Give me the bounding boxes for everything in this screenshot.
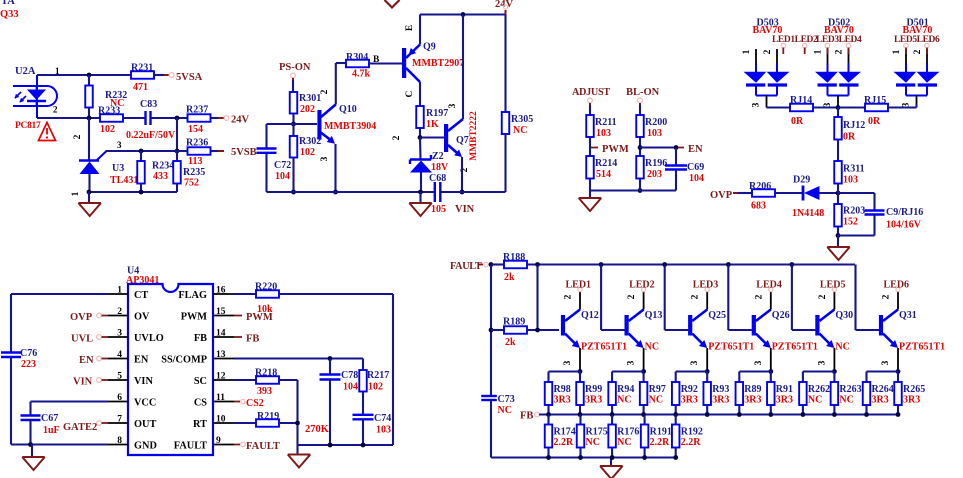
svg-text:NC: NC	[808, 395, 822, 406]
svg-text:NC: NC	[835, 342, 849, 353]
svg-text:D29: D29	[793, 175, 810, 186]
svg-text:R211: R211	[595, 117, 617, 128]
wire base node to C72	[267, 123, 294, 125]
node junction Q10 base node	[291, 122, 296, 127]
resistor R264	[863, 382, 871, 405]
svg-text:103: 103	[647, 128, 662, 139]
resistor R232	[88, 75, 90, 86]
node junction R264 at FB rail	[864, 412, 869, 417]
svg-text:UVL: UVL	[71, 334, 93, 345]
resistor R99	[576, 382, 584, 405]
svg-text:1uF: 1uF	[43, 425, 60, 436]
resistor R301	[290, 92, 298, 114]
wire GND rail bottom left	[11, 443, 108, 445]
node junction R176 bottom	[610, 455, 615, 460]
svg-text:2: 2	[627, 294, 637, 299]
svg-text:113: 113	[188, 156, 202, 167]
svg-text:C9/RJ16: C9/RJ16	[886, 207, 923, 218]
svg-text:2: 2	[392, 135, 402, 140]
wire FAULT column to R189	[491, 329, 504, 331]
svg-text:2k: 2k	[505, 337, 516, 348]
wire R237 to 24V terminal	[211, 117, 219, 119]
svg-text:UVLO: UVLO	[134, 333, 164, 344]
node junction R174 bottom	[546, 455, 551, 460]
net LED3 collector stub	[706, 292, 708, 310]
wire R305 column	[504, 15, 506, 113]
wire FAULT column	[490, 265, 492, 397]
svg-text:R99: R99	[585, 384, 602, 395]
svg-text:R200: R200	[645, 117, 667, 128]
wire base drop for Q26	[727, 265, 729, 331]
wire 24V column down	[176, 118, 178, 151]
node junction R263 at FB rail	[832, 412, 837, 417]
ground OVP column	[837, 236, 839, 248]
svg-text:152: 152	[843, 217, 858, 228]
svg-text:5: 5	[117, 372, 122, 382]
svg-text:U2A: U2A	[15, 66, 36, 77]
wire base drop for Q25	[664, 265, 666, 331]
svg-text:1: 1	[814, 49, 824, 54]
svg-text:FLAG: FLAG	[178, 290, 207, 301]
wire SS/COMP pin13	[234, 357, 363, 359]
svg-text:R191: R191	[650, 427, 672, 438]
net UVL at pin3	[97, 335, 102, 340]
resistor R211	[586, 115, 594, 137]
svg-text:LED5: LED5	[820, 280, 846, 291]
resistor R97	[640, 382, 648, 405]
svg-text:C73: C73	[498, 394, 515, 405]
svg-text:RJ12: RJ12	[843, 120, 865, 131]
svg-text:104: 104	[343, 382, 358, 393]
node junction Q10 emitter at rail	[333, 190, 338, 195]
node junction R234 bottom	[139, 190, 144, 195]
wire R197 to Q7 base node	[419, 128, 421, 138]
pin 3 stem of D502	[837, 96, 839, 108]
svg-text:202: 202	[300, 104, 315, 115]
svg-text:3: 3	[563, 360, 573, 365]
svg-text:OVP: OVP	[710, 190, 733, 201]
svg-text:R176: R176	[617, 427, 639, 438]
svg-text:3: 3	[752, 102, 762, 107]
svg-text:C: C	[405, 90, 415, 97]
net VIN at pin5	[97, 378, 102, 383]
svg-text:PZT651T1: PZT651T1	[899, 342, 945, 353]
node junction C67 at GND rail	[28, 442, 33, 447]
wire RJ15 to D501 pin3	[888, 106, 917, 108]
capacitor C76	[10, 294, 12, 353]
svg-text:Q12: Q12	[581, 310, 599, 321]
pin 3 stem of D501	[916, 96, 918, 108]
svg-text:R98: R98	[554, 384, 571, 395]
resistor R192	[675, 415, 677, 425]
wire emitter of Q31	[897, 348, 899, 372]
node junction R262 at FB rail	[801, 412, 806, 417]
node junction R219 at ground column	[295, 421, 300, 426]
pin 5 VIN of U4	[108, 379, 128, 381]
node junction R98 at FB rail	[546, 412, 551, 417]
net stubs LED3/LED4 on D502 pins	[825, 43, 830, 48]
svg-text:LED6: LED6	[884, 280, 910, 291]
svg-text:3: 3	[627, 360, 637, 365]
svg-text:RT: RT	[193, 419, 207, 430]
resistor R235	[176, 151, 178, 161]
wire divider ground rail	[590, 189, 640, 191]
svg-text:0R: 0R	[843, 132, 856, 143]
svg-text:2k: 2k	[504, 272, 515, 283]
svg-text:2: 2	[564, 294, 574, 299]
svg-text:104/16V: 104/16V	[886, 220, 922, 231]
resistor R219	[234, 422, 256, 424]
wire base node to Q7	[420, 136, 444, 138]
node junction base rail drop Q30	[790, 262, 795, 267]
pin 2 OV of U4	[108, 315, 128, 317]
net stub LED2 (floating)	[802, 43, 807, 48]
node junction C78 bottom	[328, 443, 333, 448]
wire base drop for Q30	[791, 265, 793, 331]
node junction D502 pin3	[836, 105, 841, 110]
resistor R234	[140, 151, 142, 161]
wire U2A pin1 to R231	[37, 74, 131, 76]
node junction zener anode at rail	[418, 190, 423, 195]
wire BL-ON to R200	[639, 105, 641, 115]
svg-text:104: 104	[275, 171, 290, 182]
svg-text:3: 3	[448, 103, 458, 108]
svg-text:CT: CT	[134, 290, 148, 301]
node junction R232 top	[87, 73, 92, 78]
resistor R91	[767, 382, 775, 405]
node junction C74 bottom	[361, 443, 366, 448]
svg-text:FAULT: FAULT	[174, 441, 207, 452]
wire D503 pin3 to RJ14	[767, 106, 791, 108]
shunt regulator U3 TL431	[79, 159, 99, 161]
node junction R92 at FB rail	[673, 412, 678, 417]
resistor R302	[292, 124, 294, 136]
node junction base rail drop Q25	[662, 262, 667, 267]
capacitor C9/RJ16	[838, 192, 875, 194]
net LED2 collector stub	[643, 292, 645, 310]
svg-text:LED1LED2: LED1LED2	[772, 35, 818, 45]
transistor Q13	[625, 315, 629, 336]
svg-text:514: 514	[596, 169, 611, 180]
svg-text:752: 752	[184, 178, 199, 189]
wire R301 to base node	[292, 114, 294, 125]
svg-text:Q33: Q33	[0, 9, 19, 20]
svg-text:1: 1	[71, 191, 81, 196]
svg-text:OVP: OVP	[70, 312, 93, 323]
wire R203 to ground node	[837, 227, 839, 236]
pin 1 CT of U4	[108, 293, 128, 295]
wire R304 to Q9 base	[369, 62, 402, 64]
ground R218/R220 rail	[296, 445, 298, 455]
svg-text:R264: R264	[872, 384, 894, 395]
svg-text:R94: R94	[617, 384, 634, 395]
svg-text:Q31: Q31	[899, 310, 917, 321]
node junction R203 bottom	[836, 233, 841, 238]
svg-text:15: 15	[216, 307, 226, 317]
svg-text:NC: NC	[513, 125, 527, 136]
wire U2A pin2 row	[37, 117, 100, 119]
svg-text:SS/COMP: SS/COMP	[161, 355, 207, 366]
node junction R97 at FB rail	[641, 412, 646, 417]
svg-text:2.2R: 2.2R	[554, 437, 575, 448]
node junction EN node	[638, 145, 643, 150]
svg-text:R89: R89	[744, 384, 761, 395]
svg-text:R203: R203	[843, 206, 865, 217]
svg-text:8: 8	[117, 436, 122, 446]
wire U3 ref to divider row	[106, 150, 189, 152]
svg-text:PZT651T1: PZT651T1	[708, 342, 754, 353]
svg-text:Q13: Q13	[645, 310, 663, 321]
svg-text:Q26: Q26	[772, 310, 790, 321]
svg-text:3: 3	[320, 156, 330, 161]
wire bottom emitter ground rail	[491, 456, 676, 458]
wire Q7 collector to 24V rail	[462, 15, 464, 120]
resistor R92	[672, 382, 680, 405]
node junction R175 bottom	[578, 455, 583, 460]
svg-text:R262: R262	[808, 384, 830, 395]
transistor Q9 MMBT2907	[402, 48, 406, 78]
ground VIN rail	[419, 192, 421, 203]
net EN (divider)	[678, 147, 684, 149]
node junction base rail drop Q13	[599, 262, 604, 267]
svg-text:NC: NC	[617, 437, 631, 448]
svg-text:C72: C72	[274, 160, 291, 171]
node junction R94 at FB rail	[610, 412, 615, 417]
pin 7 OUT of U4	[108, 422, 128, 424]
svg-text:3: 3	[881, 360, 891, 365]
svg-text:C74: C74	[374, 413, 391, 424]
svg-text:7: 7	[117, 415, 122, 425]
warning triangle marker	[39, 123, 56, 141]
wire D29 to OVP node	[819, 192, 838, 194]
transistor Q30	[815, 315, 819, 336]
wire R200 to EN node	[639, 137, 641, 156]
wire ADJUST to R211	[589, 105, 591, 115]
net 24V (left)	[224, 116, 229, 121]
svg-text:471: 471	[133, 82, 148, 93]
pin 13 SS/COMP of U4	[213, 358, 234, 360]
wire Q10 collector up	[335, 63, 337, 104]
svg-text:3R3: 3R3	[712, 395, 729, 406]
svg-text:OV: OV	[134, 312, 150, 323]
svg-text:TL431: TL431	[110, 175, 138, 186]
wire VIN rail right segment	[440, 191, 505, 193]
resistor R176	[611, 415, 613, 425]
pin 4 EN of U4	[108, 358, 128, 360]
capacitor C78	[329, 359, 331, 375]
svg-text:103: 103	[596, 128, 611, 139]
net FAULT at pin9	[234, 444, 240, 446]
svg-text:1N4148: 1N4148	[792, 208, 824, 219]
node junction OVP column	[836, 191, 841, 196]
svg-text:ADJUST: ADJUST	[572, 87, 610, 98]
svg-text:103: 103	[376, 425, 391, 436]
svg-text:EN: EN	[79, 355, 94, 366]
wire R220 to ground column	[279, 293, 393, 295]
svg-text:R97: R97	[649, 384, 666, 395]
resistor R265	[894, 382, 902, 405]
svg-text:PZT651T1: PZT651T1	[581, 342, 627, 353]
wire R211 to PWM node	[589, 137, 591, 156]
svg-text:VIN: VIN	[73, 377, 93, 388]
pin 15 PWM of U4	[213, 315, 234, 317]
svg-text:LED4: LED4	[756, 280, 782, 291]
svg-text:R196: R196	[645, 158, 667, 169]
pin 3 stem of D503	[766, 96, 768, 108]
net CS2 at pin11	[234, 401, 240, 403]
resistor R311	[834, 161, 842, 184]
wire base drop for Q31	[854, 265, 856, 331]
net stub LED1 (floating)	[781, 43, 786, 48]
transistor Q10 MMBT3904	[317, 110, 321, 140]
svg-text:102: 102	[368, 382, 383, 393]
svg-text:FB: FB	[246, 334, 259, 345]
wire 24V rail	[420, 13, 506, 15]
svg-text:1: 1	[892, 49, 902, 54]
net EN at pin4	[97, 356, 102, 361]
resistor RJ15	[838, 106, 865, 108]
svg-text:16: 16	[216, 286, 226, 296]
svg-text:102: 102	[300, 147, 315, 158]
capacitor C67	[29, 402, 31, 416]
resistor R174	[547, 415, 549, 425]
svg-text:PC817: PC817	[15, 121, 41, 131]
wire VIN rail left segment	[267, 191, 435, 193]
resistor R98	[545, 382, 553, 405]
svg-text:R234: R234	[152, 161, 174, 172]
ground U3	[88, 192, 90, 203]
svg-text:R197: R197	[426, 108, 448, 119]
svg-text:C76: C76	[20, 348, 37, 359]
svg-text:10: 10	[216, 415, 226, 425]
wire base drop for Q13	[600, 265, 602, 331]
svg-text:1: 1	[742, 49, 752, 54]
wire R218 net	[234, 379, 256, 381]
svg-text:2.2R: 2.2R	[650, 437, 671, 448]
svg-text:6: 6	[117, 393, 122, 403]
svg-text:TA: TA	[1, 0, 15, 7]
svg-text:FAULT: FAULT	[450, 261, 482, 272]
svg-text:2: 2	[754, 294, 764, 299]
svg-text:EN: EN	[688, 144, 703, 155]
wire OVP to R206	[738, 192, 752, 194]
svg-text:R311: R311	[843, 164, 865, 175]
svg-text:Z2: Z2	[432, 151, 444, 162]
svg-text:Q10: Q10	[339, 104, 357, 115]
svg-text:1: 1	[117, 286, 122, 296]
resistor RJ12	[837, 108, 839, 118]
pin 9 FAULT of U4	[213, 444, 234, 446]
svg-text:R235: R235	[183, 167, 205, 178]
svg-text:2: 2	[691, 294, 701, 299]
svg-text:3R3: 3R3	[681, 395, 698, 406]
node junction R196 bottom	[638, 188, 643, 193]
wire Q7 emitter down	[461, 157, 463, 192]
wire Q9 collector down to R197	[419, 82, 421, 106]
node junction R99 at FB rail	[578, 412, 583, 417]
svg-text:NC: NC	[839, 395, 853, 406]
resistor R203	[837, 193, 839, 204]
wire Q9 emitter to 24V rail	[419, 15, 421, 45]
net PWM at pin15	[234, 315, 242, 317]
net 5VSA	[169, 73, 174, 78]
transistor Q31 PZT651T1	[879, 315, 883, 336]
svg-text:FB: FB	[194, 333, 207, 344]
svg-text:2: 2	[913, 49, 923, 54]
wire analog ground rail	[298, 444, 394, 446]
svg-text:3: 3	[817, 360, 827, 365]
svg-text:0R: 0R	[791, 116, 804, 127]
svg-text:103: 103	[843, 175, 858, 186]
pin 14 FB of U4	[213, 336, 234, 338]
wire R189 to Q12 base	[527, 329, 559, 331]
svg-text:MMBT3904: MMBT3904	[324, 121, 376, 132]
svg-text:R93: R93	[712, 384, 729, 395]
svg-text:3R3: 3R3	[585, 395, 602, 406]
resistor R94	[608, 382, 616, 405]
svg-text:104: 104	[689, 173, 704, 184]
svg-text:3R3: 3R3	[744, 395, 761, 406]
svg-text:R263: R263	[839, 384, 861, 395]
svg-text:13: 13	[216, 350, 226, 360]
node junction C69 top	[674, 145, 679, 150]
wire R214 to ground rail	[589, 179, 591, 191]
net LED5 collector stub	[833, 292, 835, 310]
resistor R89	[736, 382, 744, 405]
node junction R189 left	[489, 328, 494, 333]
svg-text:102: 102	[100, 124, 115, 135]
svg-text:C69: C69	[687, 162, 704, 173]
resistor R263	[831, 382, 839, 405]
capacitor C73	[481, 395, 497, 397]
svg-text:PWM: PWM	[246, 312, 273, 323]
wire FLAG pin16 to R220	[234, 293, 256, 295]
svg-text:GND: GND	[134, 441, 157, 452]
svg-text:R175: R175	[586, 427, 608, 438]
svg-text:LED3: LED3	[693, 280, 719, 291]
svg-text:LED1: LED1	[566, 280, 592, 291]
wire R231 to 5VSA terminal	[154, 74, 164, 76]
svg-text:2: 2	[117, 307, 122, 317]
wire C83 to R237	[151, 117, 189, 119]
svg-text:PWM: PWM	[602, 144, 629, 155]
wire emitter of Q12	[579, 348, 581, 372]
pin 11 CS of U4	[213, 401, 234, 403]
pin 16 FLAG of U4	[213, 293, 234, 295]
transistor Q7 MMBT2222	[444, 124, 448, 152]
wire Q10 emitter down	[334, 144, 336, 192]
node junction R191 bottom	[642, 455, 647, 460]
svg-text:3: 3	[754, 360, 764, 365]
node junction R91 at FB rail	[768, 412, 773, 417]
transistor Q12 PZT651T1	[561, 315, 565, 336]
svg-text:PS-ON: PS-ON	[279, 62, 311, 73]
net LED4 collector stub	[770, 292, 772, 310]
svg-text:393: 393	[257, 386, 272, 397]
net stubs LED5/LED6 on D501 pins	[904, 43, 909, 48]
wire RJ12 to R311	[837, 140, 839, 162]
net OVP at pin2	[97, 313, 102, 318]
svg-text:5VSA: 5VSA	[176, 72, 203, 83]
svg-text:3: 3	[117, 329, 122, 339]
diode D29 1N4148	[802, 186, 805, 201]
node junction R93 at FB rail	[705, 412, 710, 417]
svg-text:5VSB: 5VSB	[231, 147, 257, 158]
svg-text:105: 105	[431, 204, 446, 215]
svg-text:VCC: VCC	[134, 398, 156, 409]
svg-text:2: 2	[73, 134, 83, 139]
svg-text:2: 2	[835, 49, 845, 54]
